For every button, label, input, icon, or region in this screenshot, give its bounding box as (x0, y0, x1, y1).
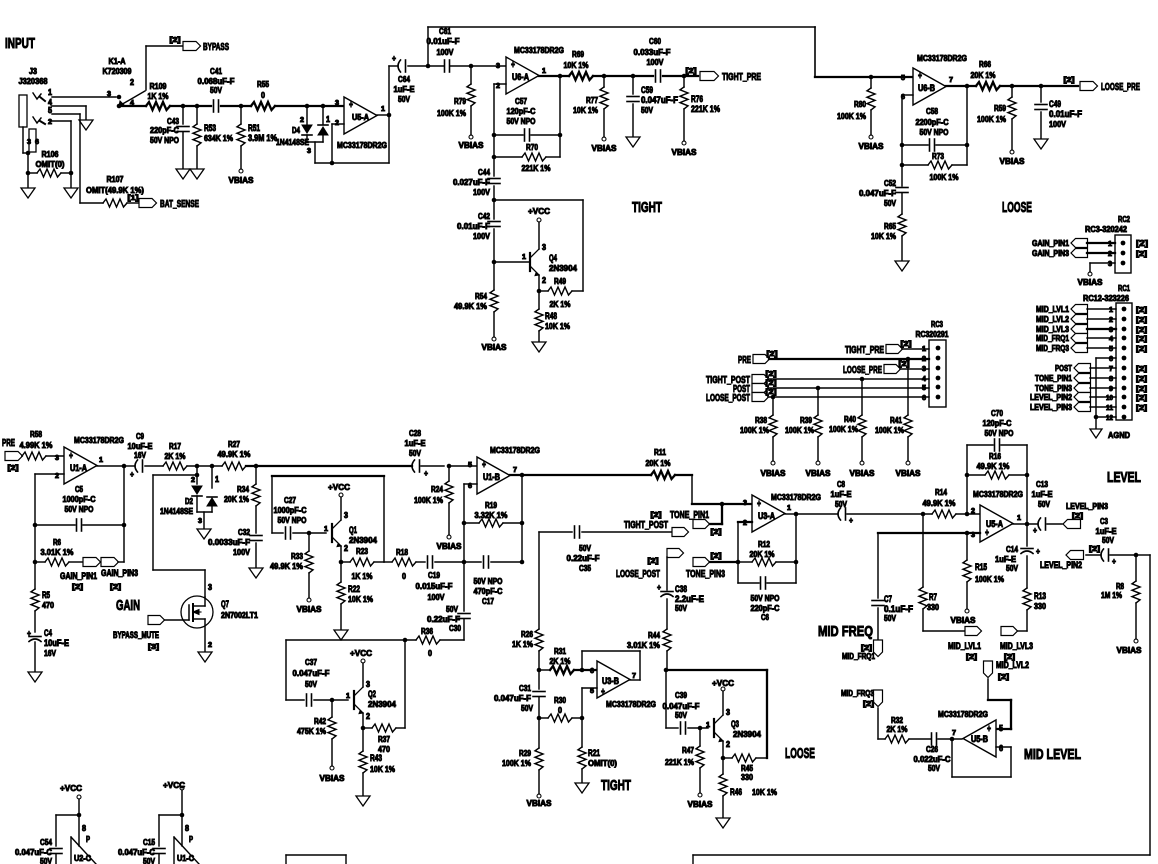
svg-text:Q2: Q2 (368, 689, 376, 699)
svg-text:TIGHT: TIGHT (632, 200, 662, 216)
svg-text:5: 5 (468, 462, 472, 469)
svg-text:D4: D4 (292, 125, 300, 135)
svg-text:1: 1 (706, 722, 710, 729)
svg-text:5: 5 (1109, 346, 1113, 353)
svg-text:R22: R22 (348, 584, 360, 594)
svg-text:1K 1%: 1K 1% (512, 639, 533, 649)
svg-text:MID_LVL2: MID_LVL2 (996, 660, 1029, 670)
svg-text:[2]: [2] (766, 380, 777, 387)
svg-text:470pF-C: 470pF-C (474, 586, 503, 596)
svg-text:50V: 50V (398, 94, 410, 104)
svg-text:50V: 50V (579, 543, 591, 553)
svg-text:R48: R48 (545, 311, 557, 321)
svg-text:1uF-E: 1uF-E (1032, 489, 1053, 499)
svg-text:+VCC: +VCC (328, 482, 350, 492)
svg-text:[2]: [2] (686, 68, 697, 75)
svg-text:3.01K 1%: 3.01K 1% (627, 640, 660, 650)
svg-text:0.015uF-F: 0.015uF-F (416, 581, 453, 591)
svg-text:10K 1%: 10K 1% (564, 60, 589, 70)
svg-text:2: 2 (971, 508, 975, 515)
svg-text:3.32K 1%: 3.32K 1% (475, 510, 508, 520)
svg-text:[2]: [2] (966, 654, 977, 661)
svg-text:LOOSE_PRE: LOOSE_PRE (843, 365, 882, 376)
svg-text:R30: R30 (554, 695, 566, 705)
svg-text:R66: R66 (979, 59, 991, 69)
svg-text:50V NPO: 50V NPO (150, 135, 179, 145)
svg-text:R43: R43 (370, 753, 382, 763)
svg-text:1: 1 (522, 254, 526, 261)
svg-text:U5-B: U5-B (971, 734, 988, 744)
svg-text:100V: 100V (428, 592, 445, 602)
svg-text:5: 5 (590, 688, 594, 695)
svg-text:6: 6 (922, 395, 926, 402)
svg-text:C42: C42 (478, 211, 490, 221)
svg-text:C26: C26 (926, 744, 938, 754)
svg-text:50V NPO: 50V NPO (920, 127, 949, 137)
svg-text:R47: R47 (682, 745, 694, 755)
svg-text:MC33178DR2G: MC33178DR2G (917, 53, 967, 63)
svg-text:MID_LVL2: MID_LVL2 (1036, 314, 1069, 324)
svg-text:50V NPO: 50V NPO (474, 576, 503, 586)
svg-text:221K 1%: 221K 1% (665, 757, 694, 767)
svg-text:C15: C15 (143, 837, 155, 847)
svg-text:MID_FRQ1: MID_FRQ1 (1036, 333, 1069, 343)
svg-text:Q7: Q7 (221, 599, 229, 609)
svg-text:R65: R65 (884, 221, 896, 231)
svg-text:50V: 50V (1102, 535, 1114, 545)
svg-text:R34: R34 (237, 484, 249, 494)
svg-text:1: 1 (324, 526, 328, 533)
svg-text:[2]: [2] (1136, 376, 1147, 383)
svg-text:7: 7 (1109, 366, 1113, 373)
svg-text:[2]: [2] (1089, 546, 1100, 553)
svg-text:C64: C64 (398, 74, 410, 84)
svg-text:[2]: [2] (1136, 346, 1147, 353)
svg-text:OMIT(0): OMIT(0) (588, 758, 617, 768)
svg-text:+: + (849, 515, 853, 525)
svg-text:PRE: PRE (738, 355, 751, 366)
svg-text:+: + (1033, 525, 1037, 535)
svg-text:49.9K 1%: 49.9K 1% (218, 449, 251, 459)
svg-text:R19: R19 (485, 500, 497, 510)
svg-text:120pF-C: 120pF-C (983, 418, 1012, 428)
svg-text:50V NPO: 50V NPO (65, 504, 94, 514)
svg-text:2: 2 (300, 117, 304, 124)
svg-text:[2]: [2] (1136, 251, 1147, 258)
svg-text:R44: R44 (648, 630, 660, 640)
svg-text:U6-B: U6-B (918, 83, 935, 93)
svg-text:50V NPO: 50V NPO (278, 515, 307, 525)
svg-text:100K 1%: 100K 1% (837, 111, 866, 121)
svg-text:8: 8 (1109, 376, 1113, 383)
svg-text:+: + (424, 468, 428, 478)
svg-text:C32: C32 (238, 527, 250, 537)
svg-text:GAIN_PIN3: GAIN_PIN3 (101, 568, 138, 578)
svg-text:C54: C54 (40, 837, 52, 847)
svg-text:MC33178DR2G: MC33178DR2G (74, 435, 124, 445)
svg-text:3.9M 1%: 3.9M 1% (248, 133, 277, 143)
svg-text:RC320291: RC320291 (916, 329, 949, 339)
svg-text:R15: R15 (975, 562, 987, 572)
svg-text:OMIT(0): OMIT(0) (36, 159, 65, 169)
svg-text:VBIAS: VBIAS (850, 468, 875, 478)
svg-text:0: 0 (558, 705, 562, 715)
svg-text:VBIAS: VBIAS (1078, 277, 1103, 287)
svg-text:R73: R73 (932, 151, 944, 161)
svg-text:10K 1%: 10K 1% (752, 787, 777, 797)
svg-text:0.01uF-F: 0.01uF-F (427, 36, 460, 46)
svg-text:0.0033uF-F: 0.0033uF-F (208, 537, 250, 547)
svg-text:49.9K 1%: 49.9K 1% (977, 461, 1010, 471)
svg-text:R23: R23 (356, 546, 368, 556)
svg-text:50V NPO: 50V NPO (507, 116, 536, 126)
svg-text:MC33178DR2G: MC33178DR2G (337, 140, 387, 150)
svg-text:Q1: Q1 (349, 525, 357, 535)
svg-text:20K 1%: 20K 1% (750, 549, 775, 559)
svg-text:100K 1%: 100K 1% (785, 425, 814, 435)
svg-text:R51: R51 (248, 123, 260, 133)
svg-text:50V: 50V (210, 85, 222, 95)
svg-text:C17: C17 (482, 596, 494, 606)
svg-text:3: 3 (1108, 261, 1112, 268)
svg-text:U1-A: U1-A (70, 463, 87, 473)
svg-text:C49: C49 (1049, 99, 1061, 109)
svg-text:+: + (757, 499, 761, 510)
svg-text:D2: D2 (185, 496, 193, 506)
svg-text:0.01uF-F: 0.01uF-F (1049, 109, 1082, 119)
svg-text:VBIAS: VBIAS (688, 799, 713, 809)
svg-text:P: P (189, 835, 193, 844)
svg-text:R106: R106 (42, 149, 59, 159)
svg-text:330: 330 (741, 772, 753, 782)
svg-text:R36: R36 (421, 626, 433, 636)
svg-text:R38: R38 (755, 415, 767, 425)
svg-text:10uF-E: 10uF-E (44, 638, 69, 648)
svg-text:12: 12 (1106, 415, 1113, 422)
svg-text:TONE_PIN3: TONE_PIN3 (686, 569, 725, 580)
svg-text:2K 1%: 2K 1% (550, 299, 571, 309)
svg-text:10K 1%: 10K 1% (871, 231, 896, 241)
svg-text:LOOSE: LOOSE (785, 746, 815, 762)
svg-text:120pF-C: 120pF-C (507, 106, 536, 116)
svg-text:50V: 50V (143, 856, 155, 864)
svg-text:100K 1%: 100K 1% (502, 758, 531, 768)
svg-text:MC33178DR2G: MC33178DR2G (514, 45, 564, 55)
svg-text:0.047uF-F: 0.047uF-F (494, 693, 531, 703)
svg-text:U2-C: U2-C (74, 853, 91, 863)
svg-text:C8: C8 (837, 479, 845, 489)
svg-text:U1-C: U1-C (177, 853, 194, 863)
svg-text:10K 1%: 10K 1% (545, 321, 570, 331)
svg-text:TIGHT_PRE: TIGHT_PRE (722, 72, 761, 83)
svg-text:VBIAS: VBIAS (482, 342, 507, 352)
svg-text:2N7002LT1: 2N7002LT1 (221, 610, 258, 620)
svg-text:2: 2 (1109, 317, 1113, 324)
svg-text:1K 1%: 1K 1% (148, 91, 169, 101)
svg-text:470: 470 (42, 600, 54, 610)
svg-text:R13: R13 (1034, 591, 1046, 601)
svg-text:[2]: [2] (1136, 327, 1147, 334)
svg-text:RC2: RC2 (1118, 214, 1130, 224)
svg-text:100V: 100V (233, 547, 250, 557)
svg-text:50V: 50V (1038, 499, 1050, 509)
svg-text:8: 8 (185, 824, 189, 833)
svg-text:50V: 50V (641, 105, 653, 115)
svg-text:R69: R69 (572, 49, 584, 59)
svg-text:R77: R77 (586, 95, 598, 105)
svg-text:VBIAS: VBIAS (459, 140, 484, 150)
svg-text:K720309: K720309 (103, 66, 132, 76)
svg-text:R33: R33 (291, 551, 303, 561)
svg-text:[2]: [2] (1136, 386, 1147, 393)
svg-text:TIGHT_PRE: TIGHT_PRE (845, 345, 884, 356)
svg-text:0.01uF-F: 0.01uF-F (457, 221, 490, 231)
svg-text:VBIAS: VBIAS (437, 541, 462, 551)
svg-text:[2]: [2] (1136, 405, 1147, 412)
svg-text:2N3904: 2N3904 (349, 535, 377, 545)
svg-text:3: 3 (496, 63, 500, 70)
svg-text:1N4148SE: 1N4148SE (160, 506, 193, 516)
svg-text:C38: C38 (675, 584, 687, 594)
svg-text:634K 1%: 634K 1% (204, 133, 233, 143)
svg-text:+VCC: +VCC (163, 780, 185, 790)
svg-text:U5-A: U5-A (986, 519, 1003, 529)
svg-text:R21: R21 (588, 748, 600, 758)
svg-text:VBIAS: VBIAS (1117, 645, 1142, 655)
svg-text:+: + (985, 528, 989, 539)
svg-text:16V: 16V (134, 450, 146, 460)
svg-text:100K 1%: 100K 1% (414, 495, 443, 505)
svg-text:R70: R70 (526, 142, 538, 152)
svg-text:+: + (130, 469, 134, 479)
svg-text:[2]: [2] (1072, 513, 1083, 520)
svg-text:RC12-323226: RC12-323226 (1083, 293, 1129, 303)
svg-text:C58: C58 (926, 106, 938, 116)
svg-text:R27: R27 (228, 439, 240, 449)
svg-text:[2]: [2] (766, 389, 777, 396)
svg-text:OMIT(49.9K 1%): OMIT(49.9K 1%) (86, 185, 144, 195)
svg-text:0: 0 (428, 648, 432, 658)
svg-text:R16: R16 (989, 451, 1001, 461)
svg-text:6: 6 (1109, 356, 1113, 363)
svg-text:100K 1%: 100K 1% (975, 574, 1004, 584)
svg-text:3.01K 1%: 3.01K 1% (41, 547, 74, 557)
svg-text:1: 1 (1017, 515, 1021, 522)
svg-text:2: 2 (726, 740, 730, 749)
svg-text:R54: R54 (475, 291, 487, 301)
svg-text:0.22uF-F: 0.22uF-F (567, 553, 600, 563)
svg-text:1: 1 (381, 106, 385, 113)
svg-text:C19: C19 (428, 570, 440, 580)
svg-text:1M 1%: 1M 1% (1101, 590, 1122, 600)
svg-text:RC3: RC3 (931, 319, 943, 329)
svg-text:2: 2 (542, 276, 546, 285)
svg-text:0.047uF-F: 0.047uF-F (293, 668, 330, 678)
svg-text:100V: 100V (1049, 119, 1066, 129)
svg-text:VBIAS: VBIAS (1000, 156, 1025, 166)
svg-text:VBIAS: VBIAS (320, 773, 345, 783)
svg-text:LOOSE_POST: LOOSE_POST (616, 569, 660, 580)
svg-text:100V: 100V (647, 57, 664, 67)
svg-text:+: + (601, 687, 605, 698)
svg-text:50V: 50V (446, 604, 458, 614)
svg-text:475K 1%: 475K 1% (297, 726, 326, 736)
svg-text:50V: 50V (675, 710, 687, 720)
svg-text:7: 7 (513, 467, 517, 474)
svg-text:1: 1 (48, 88, 52, 97)
svg-text:Q4: Q4 (549, 253, 557, 263)
svg-text:50V: 50V (928, 763, 940, 773)
svg-text:MC33178DR2G: MC33178DR2G (606, 699, 656, 709)
svg-text:50V: 50V (409, 448, 421, 458)
svg-text:+: + (918, 71, 922, 82)
svg-text:1000pF-C: 1000pF-C (63, 494, 96, 504)
svg-text:1: 1 (346, 693, 350, 700)
svg-text:C13: C13 (1036, 479, 1048, 489)
svg-text:U3-B: U3-B (602, 676, 619, 686)
svg-text:6: 6 (590, 668, 594, 675)
svg-text:100V: 100V (437, 47, 454, 57)
svg-text:+: + (1036, 546, 1040, 556)
svg-text:R37: R37 (378, 734, 390, 744)
svg-text:POST: POST (1055, 363, 1073, 373)
svg-text:R79: R79 (454, 96, 466, 106)
svg-text:GAIN_PIN1: GAIN_PIN1 (60, 571, 97, 581)
svg-text:C5: C5 (75, 484, 83, 494)
svg-text:TIGHT: TIGHT (601, 778, 631, 794)
svg-text:GAIN: GAIN (116, 598, 140, 614)
svg-text:7: 7 (949, 77, 953, 84)
svg-text:1: 1 (99, 457, 103, 464)
svg-text:VBIAS: VBIAS (951, 615, 976, 625)
svg-text:1N4148SE: 1N4148SE (276, 137, 309, 147)
svg-text:8: 8 (82, 824, 86, 833)
svg-text:C39: C39 (675, 690, 687, 700)
svg-text:3: 3 (107, 91, 111, 98)
svg-text:50V: 50V (675, 603, 687, 613)
svg-text:MC33178DR2G: MC33178DR2G (771, 492, 821, 502)
svg-text:6: 6 (35, 139, 39, 146)
svg-text:R31: R31 (554, 646, 566, 656)
svg-text:50V: 50V (521, 703, 533, 713)
svg-text:U5-A: U5-A (352, 112, 369, 122)
svg-text:20K 1%: 20K 1% (646, 458, 671, 468)
svg-text:[2]: [2] (998, 674, 1009, 681)
svg-text:R53: R53 (204, 123, 216, 133)
svg-text:2: 2 (208, 642, 212, 649)
svg-text:[2]: [2] (648, 558, 659, 565)
svg-text:2K 1%: 2K 1% (887, 724, 908, 734)
svg-text:J320368: J320368 (19, 76, 48, 86)
svg-text:C30: C30 (449, 623, 461, 633)
svg-text:C61: C61 (439, 26, 451, 36)
svg-text:1000pF-C: 1000pF-C (274, 505, 307, 515)
svg-text:VBIAS: VBIAS (672, 147, 697, 157)
svg-text:2: 2 (130, 78, 134, 87)
svg-text:0: 0 (402, 571, 406, 581)
svg-text:R39: R39 (800, 415, 812, 425)
svg-text:+: + (511, 60, 515, 71)
svg-text:LEVEL_PIN2: LEVEL_PIN2 (1040, 560, 1082, 570)
svg-text:2: 2 (344, 544, 348, 553)
svg-text:3: 3 (208, 583, 212, 592)
svg-text:R46: R46 (730, 787, 742, 797)
svg-text:3: 3 (542, 243, 546, 252)
svg-text:VBIAS: VBIAS (297, 604, 322, 614)
svg-text:LOOSE_POST: LOOSE_POST (706, 393, 750, 404)
svg-text:MID_LVL3: MID_LVL3 (1000, 641, 1033, 651)
svg-text:TONE_PIN1: TONE_PIN1 (670, 510, 709, 521)
svg-text:BYPASS: BYPASS (203, 42, 229, 53)
svg-text:Q3: Q3 (731, 719, 739, 729)
svg-text:[2]: [2] (1136, 239, 1148, 248)
svg-text:100K 1%: 100K 1% (437, 108, 466, 118)
svg-text:+: + (69, 451, 73, 462)
svg-text:TIGHT_POST: TIGHT_POST (624, 520, 668, 531)
svg-text:100K 1%: 100K 1% (977, 114, 1006, 124)
svg-text:+: + (349, 100, 353, 111)
svg-text:R29: R29 (519, 748, 531, 758)
svg-text:LOOSE_PRE: LOOSE_PRE (1101, 82, 1140, 93)
svg-text:VBIAS: VBIAS (806, 468, 831, 478)
svg-text:K1-A: K1-A (109, 56, 126, 66)
svg-text:[2]: [2] (110, 584, 121, 591)
svg-text:3: 3 (726, 708, 730, 717)
svg-text:0.033uF-F: 0.033uF-F (634, 47, 671, 57)
svg-text:R11: R11 (654, 447, 666, 457)
svg-text:+VCC: +VCC (528, 206, 550, 216)
svg-text:7: 7 (632, 673, 636, 680)
svg-text:[2]: [2] (863, 701, 874, 708)
svg-text:3: 3 (743, 500, 747, 507)
svg-text:C28: C28 (409, 428, 421, 438)
svg-text:10K 1%: 10K 1% (370, 764, 395, 774)
svg-text:4.99K 1%: 4.99K 1% (20, 440, 53, 450)
svg-text:MC33178DR2G: MC33178DR2G (490, 445, 540, 455)
svg-text:VBIAS: VBIAS (229, 175, 254, 185)
svg-text:R6: R6 (53, 537, 61, 547)
svg-text:[2]: [2] (1136, 366, 1147, 373)
svg-text:[2]: [2] (1136, 336, 1147, 343)
svg-text:2: 2 (48, 119, 52, 126)
svg-text:50V: 50V (1006, 563, 1018, 573)
svg-text:RC3-320242: RC3-320242 (1085, 224, 1127, 234)
svg-text:TONE_PIN1: TONE_PIN1 (1035, 373, 1072, 383)
svg-text:[2]: [2] (766, 371, 777, 378)
svg-text:[2]: [2] (72, 584, 83, 591)
svg-text:2200pF-C: 2200pF-C (916, 117, 949, 127)
svg-text:50V NPO: 50V NPO (751, 593, 780, 603)
svg-text:MID_LVL1: MID_LVL1 (1036, 304, 1069, 314)
svg-text:221K 1%: 221K 1% (522, 163, 551, 173)
svg-text:50V: 50V (884, 198, 896, 208)
svg-text:[2]: [2] (1136, 307, 1147, 314)
svg-text:C57: C57 (515, 96, 527, 106)
svg-text:LEVEL_PIN3: LEVEL_PIN3 (1030, 402, 1072, 412)
svg-text:9: 9 (1109, 386, 1113, 393)
svg-text:[2]: [2] (651, 512, 662, 519)
svg-text:[2]: [2] (901, 341, 912, 348)
svg-text:20K 1%: 20K 1% (971, 70, 996, 80)
svg-text:6: 6 (999, 744, 1003, 753)
svg-text:1: 1 (542, 68, 546, 75)
svg-text:[3]: [3] (148, 644, 159, 651)
svg-text:100K 1%: 100K 1% (829, 424, 858, 434)
svg-text:PRE: PRE (2, 438, 15, 449)
svg-text:R76: R76 (691, 94, 703, 104)
svg-text:BAT_SENSE: BAT_SENSE (160, 199, 199, 210)
svg-text:16V: 16V (44, 648, 56, 658)
